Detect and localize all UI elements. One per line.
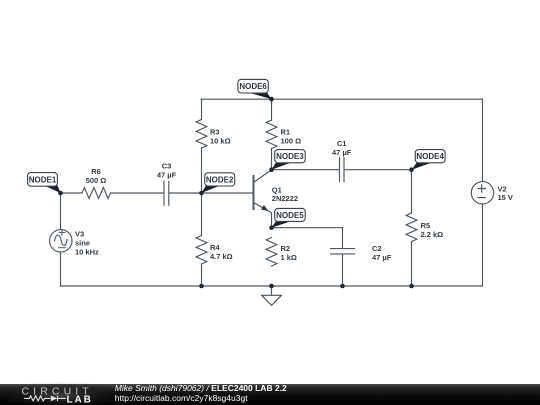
svg-text:R4: R4: [210, 243, 220, 252]
svg-text:47 µF: 47 µF: [372, 253, 392, 262]
svg-text:1 kΩ: 1 kΩ: [281, 253, 297, 262]
svg-text:NODE1: NODE1: [29, 175, 57, 184]
svg-text:Mike Smith (dshi79062) / ELEC2: Mike Smith (dshi79062) / ELEC2400 LAB 2.…: [115, 383, 287, 393]
svg-text:C1: C1: [337, 139, 347, 148]
svg-text:R1: R1: [281, 127, 291, 136]
svg-text:500 Ω: 500 Ω: [86, 176, 107, 185]
svg-text:47 µF: 47 µF: [332, 148, 352, 157]
svg-text:R6: R6: [91, 167, 101, 176]
svg-text:100 Ω: 100 Ω: [281, 136, 302, 145]
svg-text:NODE2: NODE2: [206, 175, 234, 184]
svg-text:http://circuitlab.com/c2y7k8sg: http://circuitlab.com/c2y7k8sg4u3gt: [115, 393, 248, 403]
svg-text:R5: R5: [421, 221, 431, 230]
svg-text:NODE5: NODE5: [276, 211, 304, 220]
svg-text:V2: V2: [498, 185, 507, 194]
svg-text:C3: C3: [162, 162, 172, 171]
svg-text:sine: sine: [75, 239, 90, 248]
svg-text:47 µF: 47 µF: [157, 171, 177, 180]
svg-text:NODE4: NODE4: [416, 152, 444, 161]
svg-text:NODE3: NODE3: [276, 152, 304, 161]
svg-text:NODE6: NODE6: [239, 82, 267, 91]
svg-text:15 V: 15 V: [498, 193, 513, 202]
svg-text:R3: R3: [210, 127, 220, 136]
svg-text:R2: R2: [281, 244, 291, 253]
svg-text:10 kHz: 10 kHz: [75, 248, 99, 257]
svg-text:10 kΩ: 10 kΩ: [210, 136, 231, 145]
svg-text:2N2222: 2N2222: [272, 194, 298, 203]
svg-text:V3: V3: [75, 230, 84, 239]
svg-text:2.2 kΩ: 2.2 kΩ: [421, 230, 444, 239]
svg-text:C2: C2: [372, 244, 382, 253]
svg-text:LAB: LAB: [67, 394, 93, 405]
svg-text:4.7 kΩ: 4.7 kΩ: [210, 252, 233, 261]
